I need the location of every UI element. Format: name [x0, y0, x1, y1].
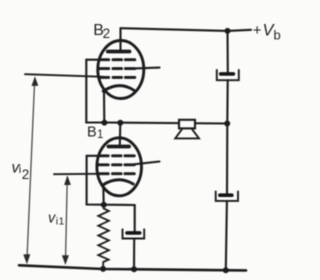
junction: top rail / right rail — [225, 28, 231, 34]
svg-text:b: b — [274, 28, 281, 43]
grid row 3 — [99, 172, 135, 175]
wire: right rail (middle section) — [226, 80, 228, 123]
label vi2 — [12, 159, 30, 182]
label B2 — [93, 22, 110, 41]
grid row 1 — [99, 154, 135, 157]
wire: top supply rail — [121, 28, 252, 31]
wire: ground rail — [19, 265, 246, 270]
label vi1 — [48, 210, 65, 227]
wire: bypass cap to ground — [133, 239, 135, 270]
junction: bypass cap to ground — [131, 266, 137, 272]
grid row 1 — [99, 58, 135, 61]
label B1 — [87, 125, 103, 142]
wire: B2 anode lead — [119, 28, 121, 51]
grid row 2 — [99, 163, 135, 166]
capacitor Ck (cathode bypass) — [123, 229, 145, 238]
wire: B1 cathode lead down — [102, 185, 104, 205]
wire: B2 grid2 drive stub (right) — [135, 67, 160, 70]
loudspeaker — [175, 120, 199, 139]
grid row 3 — [99, 76, 135, 79]
label +Vb — [253, 22, 281, 43]
envelope — [98, 41, 144, 99]
wire: B1 grid2 drive stub (right) — [134, 162, 160, 165]
wire: vi1 input line to B1 grid3 — [54, 173, 100, 175]
grid row 2 — [99, 67, 135, 70]
anode bar — [108, 50, 130, 54]
tube B1 — [97, 138, 142, 196]
wire: B2 cathode lead down — [103, 92, 105, 123]
wire: right rail (top section) — [226, 31, 228, 72]
svg-text:1: 1 — [97, 129, 103, 141]
envelope — [97, 138, 142, 196]
junction: speaker line / right rail — [224, 121, 230, 127]
junction: B1 anode node — [117, 120, 123, 126]
wire: vi2 input line to B2 grid3 — [25, 74, 104, 77]
cathode arc — [103, 180, 133, 185]
svg-text:1: 1 — [59, 216, 65, 228]
junction: right rail to ground — [223, 267, 229, 273]
wire: right rail (lower-middle section) — [226, 124, 228, 194]
svg-text:B: B — [87, 125, 97, 141]
wire: cathode line to bypass cap — [134, 205, 136, 231]
junction: B2 cathode node — [101, 120, 107, 126]
tube B2 — [98, 41, 144, 99]
wire: B1 anode lead — [119, 123, 122, 147]
svg-text:2: 2 — [103, 26, 111, 41]
svg-text:+: + — [253, 22, 262, 39]
cathode arc — [103, 86, 134, 92]
svg-text:v: v — [48, 210, 56, 226]
capacitor C2 (lower, across B1) — [216, 191, 238, 201]
dimension arrow vi2 — [23, 76, 38, 264]
anode bar — [109, 145, 130, 149]
capacitor C1 (upper, across B2) — [217, 70, 239, 80]
junction: B1 cathode node — [101, 202, 107, 208]
wire: B1 g1 left stub and bracket down to cathode line — [87, 156, 135, 205]
wire: B2 g1/g3 left stubs and bracket down to cathode node — [86, 60, 104, 123]
resistor Rk (cathode resistor) — [98, 205, 109, 269]
wire: right rail (bottom section) — [226, 201, 227, 270]
wire: midpoint line (B2 cathode - B1 anode - speaker - right rail) — [104, 123, 227, 124]
dimension arrow vi1 — [62, 175, 71, 265]
junction: resistor to ground — [100, 266, 106, 272]
svg-text:2: 2 — [22, 167, 30, 182]
